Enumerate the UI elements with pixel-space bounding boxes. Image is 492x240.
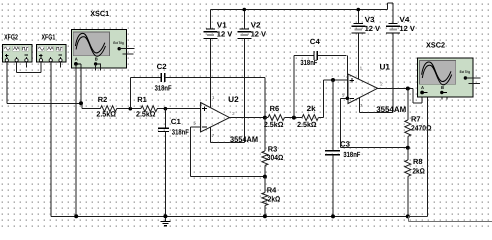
node V3-rail junction: [357, 8, 361, 12]
resistor R2 2.5k: [100, 106, 116, 112]
svg-text:A: A: [75, 57, 78, 62]
svg-text:2470Ω: 2470Ω: [411, 124, 432, 133]
svg-text:R6: R6: [270, 104, 280, 113]
wire XSC1 B+ stub: [95, 64, 97, 71]
svg-text:318nF: 318nF: [300, 58, 317, 67]
node U2 output junction: [263, 116, 267, 120]
svg-text:R7: R7: [411, 115, 421, 124]
battery V3: [354, 23, 363, 25]
svg-text:B: B: [95, 57, 98, 62]
wire U1 feedback horizontal: [340, 147, 408, 149]
wire output jog vertical: [412, 89, 414, 104]
op-amp U1: [348, 74, 378, 104]
node rail R4 junction: [263, 214, 267, 218]
node R7 top junction: [406, 87, 410, 91]
wire U1 feedback vertical: [339, 98, 341, 147]
wire R2 left lead: [82, 108, 100, 110]
wire XSC2 A+ stub: [421, 93, 423, 104]
function generator XFG2: [3, 45, 33, 63]
wire ground rail: [51, 215, 408, 217]
capacitor C1 318nF: [158, 127, 169, 129]
wire U1 output: [378, 88, 413, 90]
wire XFG1 plus up: [40, 62, 42, 72]
svg-text:C1: C1: [171, 117, 181, 126]
svg-text:2k: 2k: [307, 104, 317, 113]
function generator XFG1: [37, 45, 67, 63]
svg-text:304Ω: 304Ω: [267, 153, 284, 162]
wire C2 right vertical: [264, 77, 266, 117]
svg-text:XFG2: XFG2: [4, 33, 18, 42]
wire rail extension to XSC2: [408, 215, 428, 217]
node R3-R4 junction: [263, 175, 267, 179]
wire U2 Vminus horizontal: [210, 141, 244, 143]
svg-text:2kΩ: 2kΩ: [412, 167, 425, 176]
oscilloscope XSC1: [71, 29, 126, 68]
node rail R8 junction: [406, 214, 410, 218]
wire V2 top lead: [243, 10, 245, 30]
wire U2 output: [230, 117, 265, 119]
svg-text:B: B: [441, 85, 444, 90]
svg-text:V3: V3: [365, 15, 375, 24]
wire R6 to 2k: [284, 117, 302, 119]
wire U2 minus vertical: [189, 127, 191, 177]
svg-text:R8: R8: [413, 157, 423, 166]
wire C3 lower lead: [332, 155, 334, 217]
wire XFG2 common down: [16, 62, 18, 72]
wire R8 top lead: [407, 148, 409, 160]
svg-text:2.5kΩ: 2.5kΩ: [136, 110, 156, 119]
resistor R7 2470: [405, 120, 411, 136]
node rail C3 junction: [331, 214, 335, 218]
resistor R8 2k: [405, 160, 411, 176]
battery V1: [206, 28, 215, 30]
svg-text:318nF: 318nF: [343, 150, 360, 159]
node C4 tap junction: [292, 116, 296, 120]
svg-text:Ext Trig: Ext Trig: [460, 70, 471, 74]
wire C4 right vertical: [346, 56, 348, 99]
op-amp U2: [201, 103, 230, 133]
wire R7 bottom lead: [407, 136, 409, 147]
node rail ground junction: [163, 214, 167, 218]
wire U1 minus lead: [340, 97, 348, 99]
wire V1 top lead: [210, 10, 212, 30]
wire XFG2 plus down: [6, 62, 8, 103]
wire C4 right lead: [318, 55, 347, 57]
wire rail to right edge: [408, 220, 492, 222]
node C1 top junction: [164, 107, 168, 111]
wire R1 to U2 plus input: [157, 108, 200, 110]
wire to U1 plus input: [324, 79, 349, 81]
wire R8 bottom lead: [407, 176, 409, 216]
wire R2-R1 link: [117, 108, 141, 110]
wire XSC2 B+ stub: [441, 93, 443, 100]
wire XFG1 minus stub: [60, 62, 62, 68]
wire C3 upper vertical: [332, 80, 334, 151]
wire 2k right lead: [318, 117, 323, 119]
wire XFG2 common to XFG1 plus: [17, 71, 41, 73]
node C2 left junction: [129, 107, 133, 111]
svg-text:2.5kΩ: 2.5kΩ: [264, 120, 284, 129]
wire U2 Vminus pin: [209, 127, 211, 142]
svg-text:XFG1: XFG1: [42, 33, 56, 42]
svg-text:XSC1: XSC1: [90, 9, 109, 18]
node R7-R8 junction: [406, 146, 410, 150]
wire V1 to U2 V+ pin: [210, 39, 212, 108]
ground: [160, 220, 170, 222]
svg-text:12 V: 12 V: [399, 24, 415, 33]
wire rail jog horizontal: [388, 2, 393, 4]
oscilloscope XSC2: [418, 58, 473, 97]
svg-text:2kΩ: 2kΩ: [268, 195, 281, 204]
wire XSC2 B- stub: [446, 93, 448, 100]
node U1 minus junction: [346, 97, 350, 101]
resistor 2k 2.5k: [302, 115, 318, 121]
wire rail lower jog: [407, 216, 409, 221]
svg-text:V2: V2: [251, 20, 261, 29]
wire U1 Vminus pin: [359, 98, 361, 113]
node input junction: [79, 101, 83, 105]
wire XSC1 A+ to ground rail: [75, 64, 77, 216]
svg-text:C3: C3: [340, 140, 350, 149]
svg-text:R2: R2: [98, 95, 108, 104]
wire C1 lower lead to ground: [164, 132, 166, 222]
svg-text:R1: R1: [137, 95, 147, 104]
svg-text:12 V: 12 V: [365, 24, 381, 33]
wire R4 top lead: [264, 177, 266, 193]
svg-text:C4: C4: [310, 37, 321, 46]
resistor R4 2k: [262, 193, 268, 206]
wire jog down to R2: [81, 103, 83, 108]
svg-text:V1: V1: [217, 20, 227, 29]
svg-text:R4: R4: [267, 185, 277, 194]
wire XFG1 common to ground rail: [50, 62, 52, 216]
wire V3 to U1 V+ pin: [357, 33, 359, 79]
capacitor C3 318nF: [325, 150, 340, 152]
battery V2: [240, 28, 249, 30]
svg-text:2.5kΩ: 2.5kΩ: [297, 120, 317, 129]
node V2-rail junction: [243, 8, 247, 12]
svg-text:V4: V4: [399, 15, 410, 24]
wire XSC1 B- stub: [100, 64, 102, 71]
svg-text:U2: U2: [228, 95, 239, 104]
wire R4 bottom lead: [264, 206, 266, 217]
wire XFG2 minus stub: [25, 62, 27, 68]
capacitor C2 318nF: [160, 73, 162, 82]
wire U2 minus lead: [190, 126, 200, 128]
resistor R3 304: [262, 151, 268, 165]
node C3 top junction: [331, 78, 335, 82]
resistor R6 2.5k: [268, 115, 284, 121]
svg-text:A: A: [421, 85, 424, 90]
wire V4 top lead: [392, 3, 394, 23]
wire C2 left lead: [130, 76, 161, 78]
wire R7 top lead: [407, 89, 409, 121]
battery V4: [389, 23, 398, 25]
svg-text:318nF: 318nF: [155, 84, 172, 93]
wire R3 top lead: [264, 118, 266, 151]
svg-text:R3: R3: [268, 144, 278, 153]
node rail XSC1 junction: [74, 214, 78, 218]
wire top supply rail: [210, 9, 387, 11]
wire V4 down lead: [392, 33, 394, 113]
wire XSC1 A- to input node: [80, 64, 82, 103]
wire output jog horizontal: [413, 102, 422, 104]
wire U1 Vminus horizontal: [360, 111, 394, 113]
capacitor C4 318nF: [313, 51, 315, 60]
wire C1 upper lead: [164, 109, 166, 128]
wire rail jog vertical: [387, 3, 389, 9]
wire R3 bottom lead: [264, 165, 266, 176]
wire C4 left lead: [294, 55, 314, 57]
svg-text:U1: U1: [380, 63, 391, 72]
wire C2 left vertical: [129, 77, 131, 108]
wire V2 to U2 V- rail: [243, 39, 245, 143]
svg-text:12 V: 12 V: [217, 29, 233, 38]
svg-text:Ext Trig: Ext Trig: [113, 41, 124, 45]
svg-text:C2: C2: [157, 62, 167, 71]
svg-text:2.5kΩ: 2.5kΩ: [96, 110, 116, 119]
svg-text:XSC2: XSC2: [426, 40, 445, 49]
wire C4 left vertical: [293, 56, 295, 118]
wire U2 feedback horizontal: [190, 176, 265, 178]
resistor R1 2.5k: [141, 106, 157, 112]
svg-text:12 V: 12 V: [251, 29, 267, 38]
wire R6 left lead: [265, 117, 268, 119]
wire 2k up vertical: [323, 80, 325, 118]
wire XSC2 A- to ground: [427, 93, 429, 217]
wire C2 right lead: [165, 76, 265, 78]
wire input node horizontal: [7, 102, 82, 104]
wire V3 top lead: [357, 10, 359, 24]
svg-text:318nF: 318nF: [172, 127, 189, 136]
